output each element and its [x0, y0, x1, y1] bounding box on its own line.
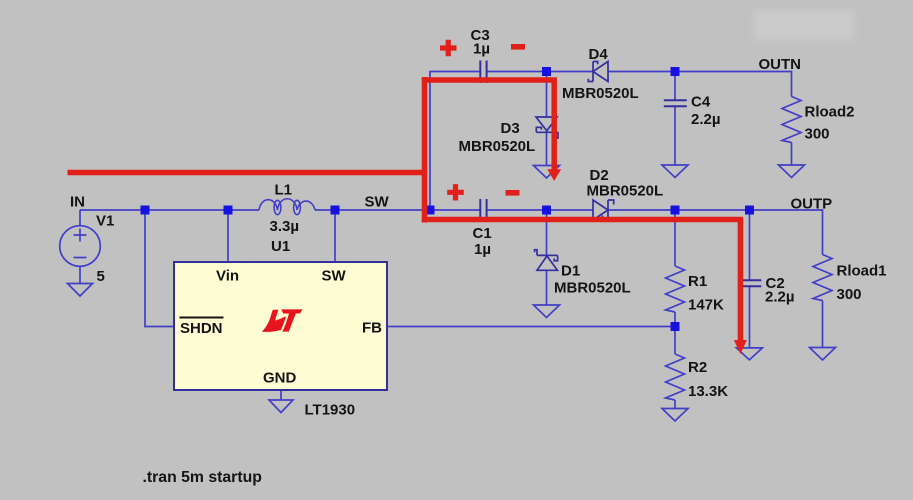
- red minus near C3: [511, 44, 525, 50]
- node C3/D3/D4 junction: [542, 67, 551, 76]
- svg-text:OUTP: OUTP: [791, 196, 833, 213]
- svg-text:R1: R1: [688, 273, 707, 290]
- wire C1 to D2: [487, 209, 594, 211]
- svg-text:C4: C4: [691, 94, 711, 111]
- wire red top branch to D3: [422, 80, 554, 170]
- ground under U1: [269, 400, 293, 413]
- svg-text:V1: V1: [96, 213, 114, 230]
- wire D3 bottom to ground: [546, 132, 548, 166]
- wire D3 top: [546, 72, 548, 118]
- diode D1: [535, 250, 558, 271]
- ground under C2: [736, 348, 762, 360]
- svg-text:D3: D3: [501, 120, 520, 137]
- svg-text:300: 300: [837, 286, 862, 303]
- svg-text:IN: IN: [70, 194, 85, 211]
- svg-text:D4: D4: [589, 46, 609, 63]
- wire Vin pin stub: [227, 210, 229, 262]
- node OUTP/R1 junction: [671, 206, 680, 215]
- wire IN net horizontal: [80, 209, 259, 211]
- wire node to SHDN pin: [145, 210, 174, 327]
- svg-text:MBR0520L: MBR0520L: [562, 85, 639, 102]
- ground under Rload1: [810, 348, 836, 361]
- diode D3: [536, 117, 558, 138]
- diode D4: [588, 62, 608, 82]
- wire red vertical trunk: [422, 77, 428, 223]
- red plus near C1: [447, 184, 464, 200]
- LT logo: [262, 309, 303, 332]
- wire L1 to C1: [315, 209, 480, 211]
- svg-text:L1: L1: [275, 182, 293, 199]
- ground under D1: [534, 305, 560, 318]
- inductor L1: [259, 199, 315, 215]
- resistor Rload1: [813, 255, 832, 301]
- wire C2 bottom to ground: [749, 287, 751, 349]
- svg-text:SW: SW: [322, 268, 347, 285]
- svg-text:SW: SW: [365, 194, 390, 211]
- ground under D3: [534, 166, 560, 179]
- red arrow at C2 ground: [734, 340, 747, 354]
- svg-text:Vin: Vin: [216, 268, 239, 285]
- svg-text:Rload2: Rload2: [805, 104, 855, 121]
- svg-text:5: 5: [97, 268, 105, 285]
- svg-text:OUTN: OUTN: [759, 56, 802, 73]
- node IN/SHDN junction: [141, 206, 150, 215]
- svg-text:.tran 5m startup: .tran 5m startup: [143, 469, 262, 486]
- wire red IN feed: [68, 170, 425, 176]
- ground under Rload2: [779, 165, 805, 178]
- svg-text:300: 300: [805, 126, 830, 143]
- wire D1 bottom to ground: [546, 270, 548, 305]
- svg-text:D2: D2: [590, 167, 609, 184]
- svg-text:R2: R2: [688, 359, 707, 376]
- wire V1 top stub: [79, 210, 81, 226]
- node SW/C1/C3 junction: [426, 206, 435, 215]
- pin label SHDN: [180, 318, 224, 338]
- svg-text:MBR0520L: MBR0520L: [587, 183, 664, 200]
- capacitor C1: [480, 199, 486, 221]
- wire R2 top: [674, 327, 676, 355]
- wire V1 bottom stub: [79, 267, 81, 284]
- ground under C4: [662, 165, 688, 178]
- wire C4 bottom to ground: [674, 107, 676, 166]
- wire D1 top: [546, 210, 548, 255]
- svg-text:FB: FB: [362, 320, 382, 337]
- red minus near C1: [506, 190, 520, 196]
- resistor R1: [666, 266, 685, 312]
- node Vin junction: [224, 206, 233, 215]
- svg-text:D1: D1: [561, 263, 580, 280]
- node FB/R1/R2 junction: [671, 322, 680, 331]
- red annotation current path: [68, 77, 741, 341]
- svg-text:MBR0520L: MBR0520L: [554, 280, 631, 297]
- svg-text:LT1930: LT1930: [305, 402, 356, 419]
- wire SW node up to C3: [430, 72, 480, 211]
- node C1/D1/D2 junction: [542, 206, 551, 215]
- svg-text:2.2µ: 2.2µ: [691, 111, 721, 128]
- svg-text:2.2µ: 2.2µ: [765, 289, 795, 306]
- node OUTN/C4 junction: [671, 67, 680, 76]
- capacitor C3: [480, 61, 486, 84]
- wire R2 bottom to ground: [674, 400, 676, 408]
- wire C3 to D4: [487, 71, 594, 73]
- diode D2: [593, 200, 614, 220]
- wire FB net: [387, 326, 675, 328]
- capacitor C2: [738, 280, 761, 286]
- red plus near C3: [440, 40, 457, 56]
- red arrow at D3 ground: [547, 169, 561, 181]
- svg-text:SHDN: SHDN: [180, 320, 223, 337]
- wire R1 top: [674, 210, 676, 266]
- svg-text:1µ: 1µ: [474, 241, 491, 258]
- svg-text:U1: U1: [271, 238, 290, 255]
- node SW left junction: [331, 206, 340, 215]
- op-amp U1 LT1930 body: [174, 262, 387, 390]
- capacitor C4: [664, 100, 687, 106]
- svg-text:1µ: 1µ: [473, 41, 490, 58]
- svg-text:GND: GND: [263, 370, 297, 387]
- ground under V1: [68, 284, 93, 297]
- wire SW pin stub: [334, 210, 336, 262]
- wire Rload1 bottom to ground: [822, 301, 824, 348]
- resistor Rload2: [782, 97, 801, 143]
- svg-text:13.3K: 13.3K: [688, 383, 728, 400]
- wire U1 GND stub: [280, 390, 282, 400]
- wire C4 top: [674, 72, 676, 101]
- wire C2 top: [749, 210, 751, 280]
- wire R1 bottom to FB node: [674, 312, 676, 327]
- svg-text:Rload1: Rload1: [837, 263, 887, 280]
- svg-text:MBR0520L: MBR0520L: [459, 138, 536, 155]
- wire D2 to OUTP corner: [608, 210, 823, 255]
- svg-text:C1: C1: [473, 225, 492, 242]
- wire D4 to OUTN corner: [608, 72, 792, 97]
- node OUTP/C2 junction: [745, 206, 754, 215]
- svg-text:147K: 147K: [688, 297, 724, 314]
- wire red bottom branch to C2: [422, 220, 741, 342]
- ground under R2: [662, 409, 688, 422]
- wire Rload2 bottom to ground: [791, 143, 793, 166]
- voltage source V1: [60, 226, 101, 267]
- svg-text:3.3µ: 3.3µ: [270, 218, 300, 235]
- resistor R2: [666, 354, 685, 400]
